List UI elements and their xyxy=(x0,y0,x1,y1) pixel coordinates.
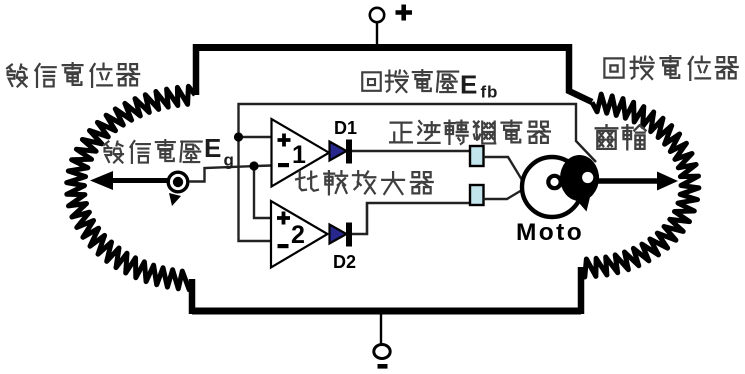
svg-text:Moto: Moto xyxy=(516,219,584,246)
label transmit potentiometer xyxy=(7,65,27,87)
svg-text:E: E xyxy=(204,133,221,163)
label feedback potentiometer xyxy=(604,58,623,77)
diode D1 xyxy=(330,142,347,161)
wire Efb feedback line xyxy=(239,104,597,241)
svg-text:fb: fb xyxy=(481,83,499,102)
node - supply terminal bottom xyxy=(380,314,382,345)
motor body xyxy=(522,157,582,217)
gear hub xyxy=(579,169,596,186)
wire D1 to relay contact 1 xyxy=(352,150,470,153)
svg-text:D1: D1 xyxy=(334,118,357,138)
op-amp U2 comparator 2 xyxy=(271,201,328,268)
resistor left potentiometer (transmitting) xyxy=(67,86,195,289)
gear disc xyxy=(560,155,599,201)
label gear xyxy=(596,125,618,149)
node junction Eg xyxy=(249,161,258,170)
wire relay2 to motor xyxy=(484,190,523,199)
wire relay1 to motor xyxy=(484,157,523,180)
wire Eg jog from wiper xyxy=(189,166,271,182)
wire top-right frame drop xyxy=(569,44,592,102)
terminal Eg wiper contact xyxy=(168,172,188,192)
wire D2 to relay contact 2 xyxy=(352,203,470,234)
label - xyxy=(378,364,388,369)
motor shaft xyxy=(548,176,560,188)
relay contact 2 xyxy=(470,185,484,205)
svg-text:g: g xyxy=(224,151,234,170)
wire bottom-left frame rise xyxy=(189,279,196,314)
label comparator amplifier xyxy=(296,172,318,191)
resistor right potentiometer (feedback) xyxy=(581,94,699,277)
svg-text:2: 2 xyxy=(291,221,305,249)
wire bottom supply bus xyxy=(192,308,581,315)
wire top-left frame drop xyxy=(193,44,200,95)
wiper arrow left potentiometer xyxy=(104,178,170,183)
wire Efb branch to op-amp1 + xyxy=(239,136,272,138)
wiper arrow right potentiometer (gear drive) xyxy=(598,178,660,184)
node + supply terminal top xyxy=(376,22,378,45)
svg-text:D2: D2 xyxy=(333,252,356,272)
node junction Efb xyxy=(234,132,243,141)
op-amp U1 comparator 1 xyxy=(272,119,330,187)
wire Eg branch down to op-amp2 + xyxy=(254,166,271,218)
svg-text:1: 1 xyxy=(292,141,306,169)
relay contact 1 xyxy=(470,146,484,166)
label forward/reverse relay xyxy=(390,123,412,143)
svg-text:E: E xyxy=(460,70,477,100)
label + xyxy=(396,5,413,21)
label feedback voltage Efb xyxy=(362,72,381,91)
wire bottom-right frame rise xyxy=(578,267,585,314)
diode D2 xyxy=(330,225,347,244)
label transmit voltage Eg xyxy=(104,142,123,163)
wire top supply bus xyxy=(199,44,572,51)
